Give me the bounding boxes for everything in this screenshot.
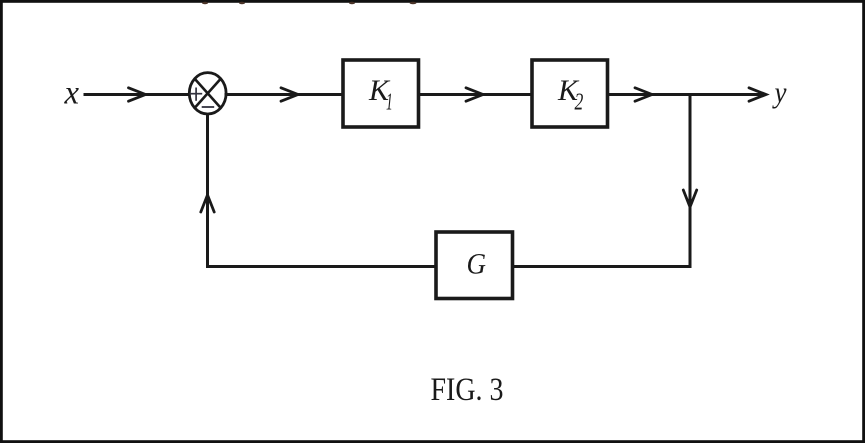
- wire K2 to output y: [607, 93, 761, 96]
- svg-text:1: 1: [386, 88, 393, 115]
- wire K1 to K2: [419, 93, 532, 96]
- svg-text:y: y: [772, 76, 787, 109]
- svg-text:2: 2: [575, 88, 584, 116]
- wire feedback riser up to summing junction: [206, 116, 209, 267]
- wire feedback bottom right G to branch: [512, 265, 690, 268]
- wire summing junction to K1: [226, 93, 343, 96]
- svg-text:x: x: [64, 75, 79, 112]
- summing junction: [189, 73, 226, 114]
- block K1: [343, 60, 419, 127]
- arrowhead down on branch wire: [683, 190, 696, 207]
- wire input x to summing junction: [85, 93, 189, 96]
- plus sign at summing junction: [190, 88, 203, 101]
- cropped text descender marks at top: [202, 2, 416, 5]
- arrowhead at output y: [749, 88, 766, 101]
- svg-text:G: G: [467, 248, 487, 281]
- arrowhead on input wire: [129, 88, 146, 101]
- block K2: [532, 60, 608, 127]
- arrowheads (open chevrons): [129, 88, 767, 212]
- arrowhead K2 to branch: [635, 88, 652, 101]
- arrowhead up on feedback riser: [201, 195, 214, 212]
- block G: [436, 232, 513, 299]
- arrowhead junction to K1: [281, 88, 298, 101]
- svg-text:FIG. 3: FIG. 3: [431, 372, 504, 408]
- minus sign at summing junction: [202, 106, 215, 108]
- wire feedback branch down: [689, 95, 692, 267]
- wire feedback bottom left G to riser: [208, 265, 437, 268]
- arrowhead K1 to K2: [466, 88, 483, 101]
